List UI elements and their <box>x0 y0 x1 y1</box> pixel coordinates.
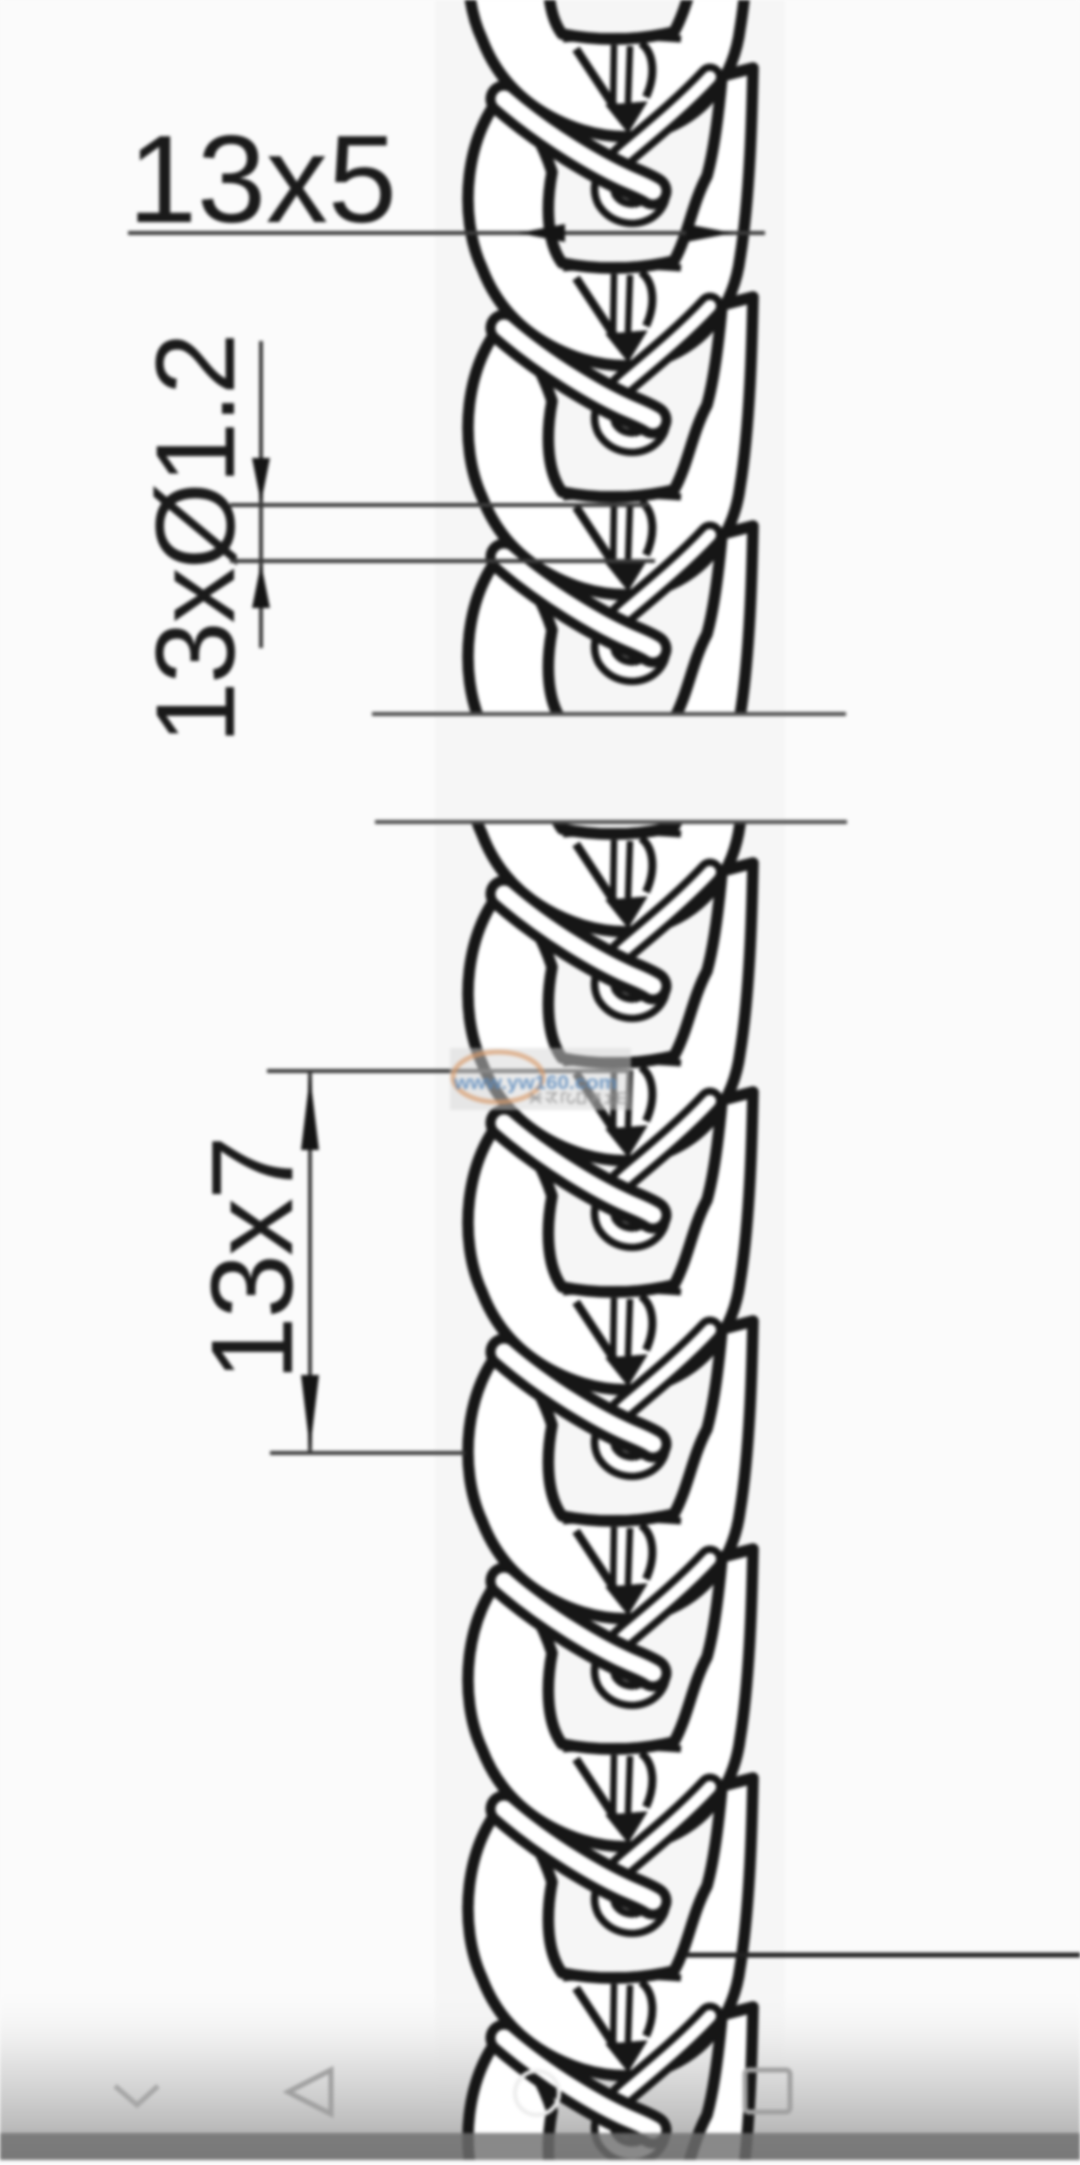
faux CJK watermark marks <box>529 1093 627 1103</box>
chain T-joint at y=501 <box>504 495 710 672</box>
chain link ring at y=272 <box>468 68 753 366</box>
long line right <box>686 1953 1080 1958</box>
extension line lower <box>230 559 655 563</box>
arrow down <box>252 458 270 503</box>
arrow down13x7 <box>301 1375 319 1450</box>
chain T-joint at y=272 <box>504 266 710 443</box>
chain link ring at y=1753 <box>468 1549 753 1847</box>
chain T-joint at y=1296 <box>504 1290 710 1467</box>
chain link ring at y=1067 <box>468 863 753 1161</box>
nav recent square <box>745 2070 790 2112</box>
chain T-joint at y=1525 <box>504 1519 710 1696</box>
chain T-joint at y=43 <box>504 37 710 214</box>
chain top section <box>468 0 753 824</box>
dim 13x7 vertical line <box>308 1071 312 1453</box>
chain link ring at y=1525 <box>468 1321 753 1619</box>
chain link ring at y=730 <box>468 526 753 824</box>
chain T-joint at y=838 <box>504 832 710 1009</box>
break line top <box>372 712 846 716</box>
extension line upper <box>230 503 648 507</box>
chain link ring at y=838 <box>468 634 753 932</box>
chain T-joint at y=1982 <box>504 1976 710 2153</box>
dim 13x5 arrow left <box>518 224 565 242</box>
chain link ring at y=1296 <box>468 1092 753 1390</box>
arrow up13x7 <box>301 1075 319 1150</box>
chain link ring at y=2211 <box>468 2007 753 2165</box>
svg-text:www.yw160.com: www.yw160.com <box>453 1073 617 1094</box>
extension line bottom <box>270 1451 465 1455</box>
dim 13x5 line <box>128 231 765 235</box>
extension line top <box>267 1069 630 1073</box>
arrow up <box>252 563 270 608</box>
nav back triangle <box>288 2070 331 2114</box>
svg-text:13xØ1.2: 13xØ1.2 <box>133 335 258 744</box>
nav chevron <box>115 2086 158 2105</box>
svg-text:13x5: 13x5 <box>128 111 397 249</box>
nav gradient backdrop <box>0 1990 1080 2160</box>
chain link ring at y=1982 <box>468 1778 753 2076</box>
chain link ring at y=501 <box>468 297 753 595</box>
dim 13x5 arrow right <box>686 224 733 242</box>
chain T-joint at y=1067 <box>504 1061 710 1238</box>
break line bottom <box>375 820 847 824</box>
faint scan tint behind chain <box>435 0 785 2160</box>
dim 13xO1.2 vertical line <box>259 341 263 648</box>
chain link ring at y=43 <box>468 0 753 137</box>
nav bottom bar <box>0 2133 1080 2160</box>
watermark <box>450 1048 631 1110</box>
svg-text:13x7: 13x7 <box>187 1137 317 1381</box>
chain T-joint at y=1753 <box>504 1747 710 1924</box>
nav home circle <box>515 2071 559 2115</box>
chain bottom section <box>468 634 753 2165</box>
